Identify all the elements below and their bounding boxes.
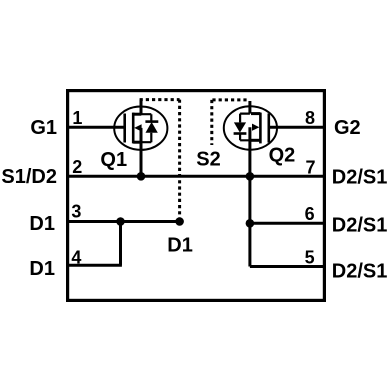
Q1 body diode branch xyxy=(141,114,151,142)
wire pin4 D1 xyxy=(67,264,122,267)
wire pin5 D2/S1 xyxy=(250,265,325,268)
Q2 gate bar xyxy=(267,113,270,142)
Q1 source stub xyxy=(133,141,141,144)
svg-text:Q2: Q2 xyxy=(269,145,296,167)
Q1 diode triangle xyxy=(146,122,158,133)
svg-text:7: 7 xyxy=(305,157,315,177)
Q2 source lead xyxy=(248,101,251,114)
transistor Q2 body circle xyxy=(224,106,277,149)
svg-text:6: 6 xyxy=(305,204,315,224)
svg-text:3: 3 xyxy=(71,202,81,222)
wire pin6 D2/S1 xyxy=(250,222,325,225)
junction pin6 xyxy=(246,219,255,228)
junction dotted D1 on pin3 wire xyxy=(175,217,184,226)
Q2 source stub xyxy=(251,112,260,115)
svg-text:2: 2 xyxy=(72,157,82,177)
Q1 gate bar xyxy=(123,114,126,143)
svg-text:G2: G2 xyxy=(334,117,361,139)
Q2 body diode branch xyxy=(240,114,250,141)
Q2 channel bar xyxy=(259,113,262,144)
svg-text:D1: D1 xyxy=(167,235,193,257)
svg-text:S1/D2: S1/D2 xyxy=(1,166,57,188)
svg-text:8: 8 xyxy=(305,108,315,128)
Q1 source lead xyxy=(140,128,143,176)
wire vertical pin3-pin4 link xyxy=(119,222,122,266)
svg-text:G1: G1 xyxy=(30,117,57,139)
Q1 body arrow xyxy=(134,124,141,131)
svg-text:5: 5 xyxy=(305,247,315,267)
svg-text:Q1: Q1 xyxy=(100,149,127,171)
svg-text:4: 4 xyxy=(71,247,81,267)
Q1 diode cathode bar xyxy=(145,120,158,123)
Q2 diode cathode bar xyxy=(234,132,247,135)
svg-text:D1: D1 xyxy=(29,258,55,280)
junction Q2 at pin7 rail xyxy=(246,172,255,181)
junction Q1 source on S1 rail xyxy=(137,172,146,181)
junction pin3-pin4 xyxy=(116,217,125,226)
svg-text:D2/S1: D2/S1 xyxy=(332,215,388,237)
wire S1/D2 rail pin2 to pin7 xyxy=(67,175,325,178)
Q1 drain lead xyxy=(140,100,143,115)
svg-text:D2/S1: D2/S1 xyxy=(332,261,388,283)
package outline xyxy=(68,91,325,301)
wire pin8 to Q2 gate xyxy=(269,126,325,129)
svg-text:S2: S2 xyxy=(196,149,220,171)
Q2 drain stub xyxy=(251,139,260,142)
wire pin3 D1 xyxy=(67,220,181,223)
wire vertical Q2 source to pins 7-6-5 xyxy=(248,127,251,266)
Q2 diode triangle xyxy=(234,122,246,132)
transistor Q1 body circle xyxy=(114,107,167,150)
wire pin1 to Q1 gate xyxy=(67,126,125,129)
dotted net Q1 drain to D1 node xyxy=(140,100,180,219)
Q1 channel bar xyxy=(132,113,135,144)
svg-text:D2/S1: D2/S1 xyxy=(332,166,388,188)
Q2 body arrow xyxy=(252,124,259,131)
svg-text:1: 1 xyxy=(72,108,82,128)
Q1 drain stub xyxy=(133,113,141,116)
dotted net Q2 source S2 xyxy=(212,100,247,145)
svg-text:D1: D1 xyxy=(29,213,55,235)
